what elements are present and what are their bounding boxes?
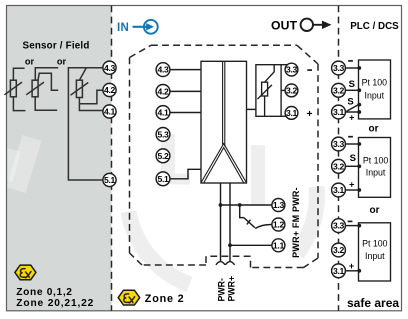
svg-text:3.2: 3.2	[333, 161, 345, 171]
connector hook PWR+	[225, 262, 234, 265]
svg-text:4.3: 4.3	[157, 65, 169, 75]
terminal 3.3 (PLC group 2)	[332, 137, 346, 151]
label Zone 0,1,2	[16, 287, 72, 298]
svg-text:Sensor / Field: Sensor / Field	[22, 40, 89, 51]
wire 5.1 to amplifier	[170, 169, 201, 179]
Pt100 input box 3	[359, 223, 391, 281]
label S group 1 (sense)	[347, 96, 353, 107]
terminal 5.3 (device input)	[156, 127, 170, 141]
terminal 1.1	[272, 239, 285, 252]
label plus group 1	[349, 112, 354, 122]
title Sensor / Field	[22, 40, 89, 51]
svg-text:1.2: 1.2	[273, 220, 285, 230]
terminal 5.2 (device input)	[156, 149, 170, 163]
svg-text:S: S	[349, 79, 355, 90]
terminal 4.2 (field side)	[103, 83, 116, 96]
label or (group 1/2)	[369, 124, 379, 135]
Zone 2 dashed boundary box	[130, 45, 319, 267]
label plus at device output	[307, 109, 313, 120]
terminal 3.2 (device output)	[285, 84, 298, 97]
svg-text:or: or	[370, 205, 380, 216]
label plus group 2	[349, 180, 354, 190]
junction FM tap	[238, 203, 242, 207]
terminal 5.1 (field side)	[103, 173, 116, 186]
svg-text:5.1: 5.1	[104, 175, 116, 185]
svg-text:3.3: 3.3	[333, 221, 345, 231]
pins group 3	[357, 224, 361, 273]
terminal 3.3 (device output)	[285, 63, 298, 76]
pins group 1	[357, 66, 361, 114]
svg-text:4.2: 4.2	[104, 85, 116, 95]
terminal 3.3 (PLC group 3)	[332, 219, 346, 233]
svg-text:Pt 100: Pt 100	[362, 239, 388, 249]
svg-text:3.1: 3.1	[286, 108, 298, 118]
wire output box to 3.3	[281, 64, 287, 66]
wires group 2 to Pt100 input	[345, 144, 358, 190]
svg-text:4.1: 4.1	[157, 108, 169, 118]
terminal 3.1 (PLC group 3)	[332, 264, 346, 278]
svg-text:PWR-: PWR-	[217, 278, 227, 302]
RTD sensor RT2 (3-wire)	[26, 68, 58, 111]
label PWR+ (vertical, below right power wire)	[227, 276, 237, 302]
wire 4.1 to amplifier	[170, 112, 201, 114]
svg-text:Zone 20,21,22: Zone 20,21,22	[16, 298, 94, 309]
isolation amplifier U1	[201, 61, 247, 183]
wire amplifier to output network	[247, 108, 256, 110]
svg-text:or: or	[25, 56, 35, 66]
svg-text:+: +	[349, 112, 354, 122]
terminal 1.3	[272, 199, 285, 212]
label minus at device output	[307, 69, 312, 71]
svg-text:3.2: 3.2	[333, 245, 345, 255]
label or (group 2/3)	[370, 205, 380, 216]
svg-text:Pt 100: Pt 100	[363, 156, 389, 166]
junction on PWR+ wire	[228, 243, 232, 247]
terminal 4.2 (device input)	[156, 85, 170, 99]
label or (between sensor 1 and 2)	[25, 56, 35, 66]
svg-text:3.3: 3.3	[333, 63, 345, 73]
field/IN dashed separator	[111, 6, 113, 311]
terminal 3.1 (PLC group 2)	[332, 183, 346, 197]
terminal 4.1 (field side)	[103, 105, 116, 118]
pins group 2	[357, 142, 361, 192]
svg-text:+: +	[349, 180, 354, 190]
power wire PWR- (left)	[220, 183, 222, 261]
svg-text:Pt 100: Pt 100	[362, 77, 388, 87]
label Zone 2	[145, 293, 185, 305]
svg-text:4.3: 4.3	[104, 63, 116, 73]
terminal 3.2 (PLC group 2)	[332, 159, 346, 173]
junction on PWR- wire	[219, 203, 223, 207]
svg-text:Input: Input	[365, 251, 385, 261]
svg-text:S: S	[350, 153, 356, 164]
svg-text:PWR+ FM PWR-: PWR+ FM PWR-	[291, 187, 301, 258]
wire output box to 3.1	[281, 115, 286, 117]
terminal 4.1 (device input)	[156, 106, 170, 120]
svg-text:Input: Input	[366, 167, 386, 177]
Ex logo (Zone 2)	[118, 290, 140, 305]
OUT/PLC dashed separator	[338, 6, 340, 311]
label Zone 20,21,22	[16, 298, 94, 309]
svg-text:+: +	[349, 261, 354, 271]
terminal 3.2 (PLC group 1)	[332, 83, 346, 97]
wire 4.2 to amplifier	[170, 90, 201, 92]
FM switch contact	[240, 205, 255, 228]
terminal 1.2	[272, 218, 285, 231]
connector hook PWR-	[216, 262, 225, 265]
wire PWR+ to terminal 1.1	[230, 244, 272, 246]
label PWR+ FM PWR- (vertical)	[291, 187, 301, 258]
svg-text:PWR+: PWR+	[227, 276, 237, 302]
label safe area	[347, 296, 399, 310]
terminal 3.3 (PLC group 1)	[332, 61, 346, 75]
svg-text:PLC / DCS: PLC / DCS	[350, 21, 399, 32]
svg-text:3.1: 3.1	[333, 107, 345, 117]
watermark	[128, 134, 317, 284]
svg-text:1.3: 1.3	[273, 200, 285, 210]
svg-text:or: or	[369, 124, 379, 135]
svg-text:4.1: 4.1	[104, 107, 116, 117]
wire 4.3 to amplifier	[170, 69, 201, 71]
label plus group 3	[349, 261, 354, 271]
OUT arrow icon	[301, 19, 332, 31]
svg-text:OUT: OUT	[271, 18, 298, 32]
wire PWR- to terminal 1.3	[221, 204, 272, 206]
label PWR- (vertical, below left power wire)	[217, 278, 227, 302]
svg-text:5.3: 5.3	[157, 130, 169, 140]
IN arrow icon	[133, 20, 158, 34]
label S group 1 (3.2)	[349, 79, 355, 90]
wires group 3 to Pt100 input	[345, 226, 358, 271]
svg-text:Input: Input	[365, 91, 385, 101]
terminal 5.1 (device input)	[156, 172, 170, 186]
svg-text:3.3: 3.3	[286, 65, 298, 75]
simulated RTD output box	[256, 65, 281, 117]
svg-text:5.2: 5.2	[157, 151, 169, 161]
wire output box to 3.2	[281, 89, 286, 91]
svg-text:1.1: 1.1	[273, 240, 285, 250]
label S group 2	[350, 153, 356, 164]
svg-text:safe area: safe area	[347, 296, 399, 310]
Pt100 input box 1	[359, 60, 391, 119]
svg-text:+: +	[307, 109, 313, 120]
svg-text:S: S	[347, 96, 353, 107]
label OUT	[271, 18, 298, 32]
RTD sensor RT1 (2-wire)	[4, 68, 25, 110]
terminal 3.2 (PLC group 3)	[332, 243, 346, 257]
label minus group 1	[348, 60, 353, 62]
svg-text:4.2: 4.2	[157, 87, 169, 97]
field area background	[7, 6, 112, 311]
svg-text:3.3: 3.3	[333, 139, 345, 149]
wires group 1 to Pt100 input	[345, 68, 358, 112]
label or (between sensor 2 and 3)	[57, 56, 67, 66]
terminal 3.1 (PLC group 1)	[332, 105, 346, 119]
svg-text:IN: IN	[117, 22, 129, 34]
svg-text:3.2: 3.2	[286, 86, 298, 96]
terminal 4.3 (field side)	[103, 61, 116, 74]
svg-text:Zone 0,1,2: Zone 0,1,2	[16, 287, 72, 298]
label minus group 2	[348, 136, 353, 138]
svg-text:Zone 2: Zone 2	[145, 293, 185, 305]
svg-text:3.1: 3.1	[333, 185, 345, 195]
wire sensor RT3 to terminals 4.3 and 5.1	[68, 68, 103, 180]
svg-text:3.1: 3.1	[333, 266, 345, 276]
wire terminal 1.2 lead	[255, 225, 272, 229]
RTD sensor RT3 (4-wire, connected)	[71, 68, 104, 111]
svg-text:or: or	[57, 56, 67, 66]
terminal 4.3 (device input)	[156, 63, 170, 77]
simulated RTD resistor	[257, 65, 274, 117]
svg-text:5.1: 5.1	[157, 174, 169, 184]
terminal 3.1 (device output)	[285, 107, 298, 120]
power wire PWR+ (right)	[229, 183, 231, 261]
Pt100 input box 2	[359, 138, 391, 198]
svg-text:3.2: 3.2	[333, 85, 345, 95]
label minus group 3	[348, 220, 353, 222]
Ex logo (field)	[15, 265, 36, 280]
label IN	[117, 22, 129, 34]
title PLC / DCS	[350, 21, 399, 32]
